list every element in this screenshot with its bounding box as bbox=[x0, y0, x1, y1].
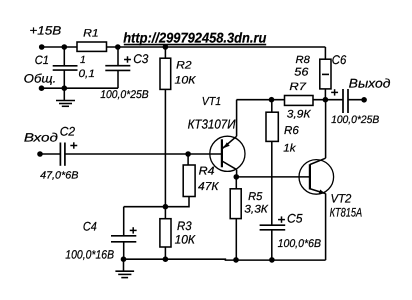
node C5 bottom junction bbox=[269, 257, 275, 263]
svg-text:3,3К: 3,3К bbox=[244, 204, 268, 216]
node input terminal bbox=[37, 151, 43, 157]
label C5 plus bbox=[278, 216, 285, 222]
svg-text:100,0*25В: 100,0*25В bbox=[331, 114, 379, 126]
node ground junction bbox=[62, 85, 68, 91]
resistor R3 bbox=[160, 219, 171, 247]
svg-text:1: 1 bbox=[80, 55, 86, 66]
svg-text:КТ3107И: КТ3107И bbox=[188, 116, 237, 131]
svg-text:С3: С3 bbox=[133, 52, 148, 66]
svg-text:+15В: +15В bbox=[29, 24, 61, 38]
transistor VT1 bbox=[210, 136, 245, 177]
wire ground rail bbox=[42, 87, 119, 89]
wire top rail left bbox=[42, 46, 77, 48]
ground bbox=[56, 88, 75, 106]
node R4 bottom junction bbox=[163, 204, 169, 210]
svg-text:1k: 1k bbox=[283, 143, 296, 155]
svg-text:http://299792458.3dn.ru: http://299792458.3dn.ru bbox=[123, 29, 267, 45]
wire VT1 collector to VT2 base bbox=[236, 176, 310, 178]
wire R2 to R3 vertical bbox=[164, 89, 166, 218]
svg-text:47К: 47К bbox=[198, 181, 220, 193]
wire C5 bottom lead bbox=[271, 230, 273, 260]
node +15V terminal bbox=[39, 44, 45, 50]
wire C3 bottom lead bbox=[117, 70, 119, 88]
svg-text:Вход: Вход bbox=[24, 131, 58, 145]
wire bottom rail bbox=[124, 258, 326, 261]
capacitor C2 bbox=[60, 143, 65, 166]
node R6 top junction bbox=[269, 97, 275, 103]
svg-text:VT2: VT2 bbox=[331, 191, 352, 205]
wire output bbox=[348, 99, 364, 101]
wire VT1 emitter node horizontal bbox=[237, 99, 285, 101]
svg-text:47,0*6В: 47,0*6В bbox=[40, 171, 78, 182]
wire R7 to output node bbox=[313, 99, 343, 101]
svg-text:0,1: 0,1 bbox=[79, 68, 95, 80]
wire R3 bottom lead bbox=[164, 247, 166, 259]
svg-text:100,0*25В: 100,0*25В bbox=[100, 89, 149, 101]
svg-text:С5: С5 bbox=[287, 212, 303, 226]
node C1 top junction bbox=[62, 44, 68, 50]
wire C4 top lead bbox=[123, 207, 125, 236]
wire C1 top lead bbox=[63, 47, 65, 66]
svg-text:R3: R3 bbox=[177, 219, 192, 233]
node R4 top junction bbox=[185, 151, 191, 157]
resistor R5 bbox=[230, 189, 241, 219]
label C6 plus bbox=[331, 89, 338, 95]
resistor R1 bbox=[77, 42, 107, 51]
svg-text:VT1: VT1 bbox=[202, 95, 221, 108]
svg-text:R2: R2 bbox=[176, 60, 192, 72]
wire R5 top lead bbox=[235, 177, 237, 189]
wire R4 top lead bbox=[187, 154, 189, 165]
svg-text:R5: R5 bbox=[248, 191, 263, 203]
node ground rail junction bbox=[121, 256, 127, 262]
node R3 bottom junction bbox=[163, 256, 169, 262]
capacitor C5 bbox=[260, 225, 286, 230]
wire VT2 emitter vertical bbox=[325, 193, 327, 260]
wire C2 to VT1 base bbox=[65, 153, 222, 155]
label C2 plus bbox=[70, 142, 77, 148]
wire C6 bottom lead bbox=[324, 89, 326, 100]
wire VT1 emitter vertical bbox=[236, 100, 238, 137]
wire C1 bottom lead bbox=[63, 70, 65, 88]
transistor VT2 bbox=[299, 158, 334, 194]
svg-text:3,9К: 3,9К bbox=[287, 109, 311, 121]
wire C6 top lead bbox=[324, 47, 326, 59]
wire R2 top lead bbox=[164, 47, 166, 58]
svg-text:C2: C2 bbox=[60, 124, 76, 138]
svg-text:C4: C4 bbox=[83, 220, 97, 234]
svg-text:100,0*16В: 100,0*16В bbox=[65, 248, 114, 262]
node VT1 collector junction bbox=[234, 174, 240, 180]
url underline bbox=[124, 44, 266, 46]
wire VT2 collector vertical bbox=[325, 100, 327, 159]
svg-text:C1: C1 bbox=[35, 53, 49, 67]
svg-text:R4: R4 bbox=[199, 166, 215, 178]
capacitor C1 bbox=[53, 66, 78, 70]
wire R4 bottom lead bbox=[124, 197, 189, 207]
node C3 top junction bbox=[115, 44, 121, 50]
node R5 bottom junction bbox=[233, 257, 239, 263]
svg-text:Выход: Выход bbox=[349, 77, 391, 91]
svg-text:С6: С6 bbox=[332, 53, 347, 67]
resistor R6 bbox=[266, 112, 278, 141]
svg-text:56: 56 bbox=[294, 66, 309, 78]
node Obsh terminal bbox=[39, 85, 45, 91]
resistor R4 bbox=[183, 165, 195, 197]
wire R6 to C5 bbox=[271, 141, 273, 225]
wire C4 bottom lead bbox=[123, 242, 125, 259]
svg-text:КТ815А: КТ815А bbox=[330, 205, 363, 219]
svg-text:R1: R1 bbox=[83, 27, 99, 39]
label C3 plus bbox=[124, 56, 131, 62]
node output junction bbox=[323, 97, 329, 103]
ground bbox=[115, 259, 134, 277]
wire input bbox=[40, 153, 60, 155]
resistor R7 bbox=[285, 96, 314, 106]
svg-text:R8: R8 bbox=[296, 55, 311, 66]
capacitor C3 bbox=[105, 66, 130, 71]
svg-text:R7: R7 bbox=[289, 81, 307, 93]
resistor R2 bbox=[160, 58, 171, 89]
wire C3 top lead bbox=[117, 47, 119, 66]
label C4 plus bbox=[130, 227, 137, 233]
node R2 top junction bbox=[163, 44, 169, 50]
svg-text:10К: 10К bbox=[175, 74, 197, 86]
svg-text:R6: R6 bbox=[284, 125, 299, 137]
node output terminal bbox=[361, 97, 367, 103]
capacitor Cout output bbox=[343, 89, 348, 113]
wire top rail bbox=[107, 46, 326, 48]
capacitor C6 box bbox=[320, 59, 331, 89]
svg-text:100,0*6В: 100,0*6В bbox=[278, 238, 322, 250]
svg-text:10К: 10К bbox=[175, 233, 196, 247]
wire R5 bottom lead bbox=[235, 219, 237, 261]
wire R6 top lead bbox=[271, 100, 273, 113]
capacitor C4 bbox=[111, 236, 136, 242]
svg-text:Общ.: Общ. bbox=[24, 72, 57, 86]
